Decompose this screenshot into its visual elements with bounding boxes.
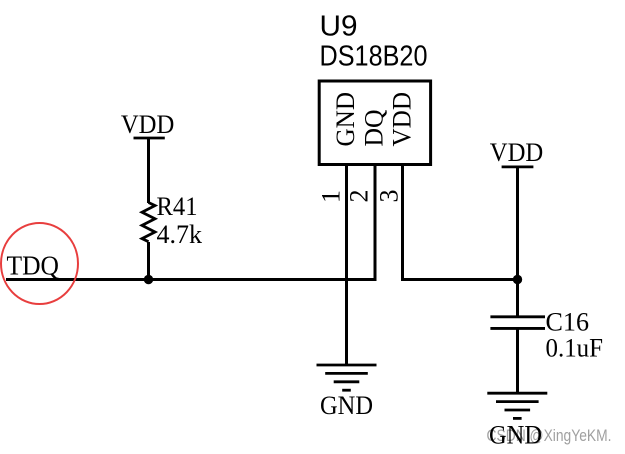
svg-text:2: 2 (345, 190, 374, 203)
svg-text:1: 1 (317, 190, 346, 203)
svg-text:C16: C16 (546, 308, 590, 337)
svg-text:VDD: VDD (388, 92, 417, 147)
wire R41 to node (147, 242, 150, 280)
svg-text:DQ: DQ (360, 109, 389, 146)
svg-text:R41: R41 (157, 192, 198, 221)
svg-text:0.1uF: 0.1uF (546, 334, 604, 363)
svg-text:4.7k: 4.7k (157, 220, 203, 249)
svg-text:TDQ: TDQ (7, 251, 60, 281)
svg-text:U9: U9 (320, 11, 358, 43)
power symbol VDD (left) (121, 110, 175, 139)
svg-text:GND: GND (320, 391, 373, 420)
annotation red ellipse around TDQ (1, 223, 78, 304)
ground symbol (below pin 1) (317, 365, 377, 420)
wire VDD to C16 (516, 167, 519, 317)
svg-text:VDD: VDD (490, 138, 544, 167)
junction node at R41/TDQ (144, 275, 153, 284)
svg-text:GND: GND (489, 421, 542, 450)
wire C16 to ground (516, 328, 519, 393)
wire pin 3 to VDD node (403, 165, 518, 280)
wire TDQ net to pin 2 (6, 165, 375, 280)
power symbol VDD (right) (490, 138, 544, 167)
ground symbol (below C16) (487, 393, 547, 418)
wire VDD to R41 (147, 138, 150, 203)
svg-text:3: 3 (374, 190, 403, 203)
wire pin 1 to ground (345, 165, 348, 365)
svg-text:GND: GND (331, 92, 360, 147)
svg-text:VDD: VDD (121, 110, 175, 139)
capacitor C16 (490, 308, 603, 363)
IC U9 body (319, 81, 430, 165)
resistor R41 (142, 192, 202, 249)
junction node at VDD/C16 (513, 275, 522, 284)
svg-text:DS18B20: DS18B20 (320, 41, 428, 73)
